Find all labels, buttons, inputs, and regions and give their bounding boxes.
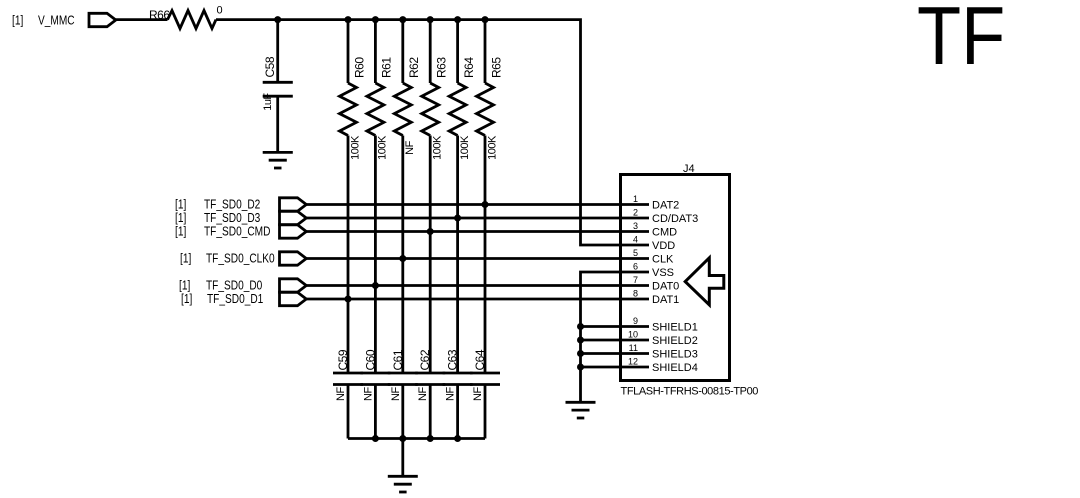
- pin 7 DAT0: [633, 275, 679, 292]
- wire SHIELD3 stub: [581, 352, 650, 355]
- junction SHIELD4: [577, 364, 584, 371]
- port TF_SD0_CLK0: [180, 251, 306, 265]
- svg-text:C62: C62: [418, 349, 432, 370]
- capacitor C64: [470, 349, 500, 438]
- svg-text:NF: NF: [445, 387, 457, 401]
- capacitor C61: [388, 349, 418, 438]
- svg-text:10: 10: [628, 330, 638, 340]
- junction R62 top: [399, 16, 406, 23]
- wire TF_SD0_D0 to pin 7: [306, 284, 649, 287]
- svg-text:2: 2: [633, 208, 638, 218]
- svg-text:CMD: CMD: [652, 226, 677, 238]
- svg-text:4: 4: [633, 235, 638, 245]
- resistor R66: [149, 5, 223, 29]
- svg-text:J4: J4: [683, 163, 695, 175]
- svg-text:TFLASH-TFRHS-00815-TP00: TFLASH-TFRHS-00815-TP00: [621, 386, 759, 398]
- svg-text:0: 0: [217, 5, 223, 17]
- wire SHIELD2 stub: [581, 339, 650, 342]
- svg-text:C64: C64: [473, 349, 487, 370]
- capacitor C59: [333, 349, 363, 438]
- svg-text:7: 7: [633, 275, 638, 285]
- wire V_MMC to R66: [116, 18, 168, 21]
- wire ground bus: [348, 437, 485, 440]
- svg-text:C61: C61: [391, 349, 405, 370]
- pin 2 CD/DAT3: [633, 208, 698, 225]
- svg-text:TF_SD0_D1: TF_SD0_D1: [207, 292, 263, 306]
- svg-text:[1]: [1]: [175, 197, 186, 211]
- resistor R64: [449, 20, 476, 373]
- junction bus C60: [372, 435, 379, 442]
- pin 1 DAT2: [633, 194, 679, 211]
- svg-text:DAT1: DAT1: [652, 294, 679, 306]
- port TF_SD0_CMD: [175, 224, 306, 238]
- port TF_SD0_D3: [175, 211, 306, 225]
- resistor R65: [477, 20, 504, 373]
- svg-text:R62: R62: [407, 57, 421, 78]
- svg-text:9: 9: [633, 316, 638, 326]
- svg-text:100K: 100K: [432, 135, 444, 160]
- svg-text:NF: NF: [472, 387, 484, 401]
- svg-text:VDD: VDD: [652, 240, 675, 252]
- svg-text:8: 8: [633, 289, 638, 299]
- svg-text:C63: C63: [446, 349, 460, 370]
- resistor R62: [394, 20, 421, 373]
- svg-text:CD/DAT3: CD/DAT3: [652, 213, 698, 225]
- svg-text:12: 12: [628, 357, 638, 367]
- port V_MMC: [12, 13, 116, 28]
- svg-text:100K: 100K: [486, 135, 498, 160]
- svg-text:5: 5: [633, 248, 638, 258]
- port TF_SD0_D2: [175, 197, 306, 211]
- junction SHIELD2: [577, 337, 584, 344]
- wire TF_SD0_CLK0 to pin 5: [306, 257, 649, 260]
- svg-text:11: 11: [629, 343, 638, 353]
- junction R65 top: [482, 16, 489, 23]
- wire SHIELD1 stub: [581, 325, 650, 328]
- svg-text:1uF: 1uF: [262, 93, 274, 111]
- card detect arrow: [685, 258, 724, 305]
- ground C58: [263, 152, 293, 168]
- svg-text:DAT2: DAT2: [652, 199, 679, 211]
- svg-text:TF_SD0_D2: TF_SD0_D2: [204, 197, 260, 211]
- wire V_MMC net to pin 4 VDD: [216, 20, 649, 245]
- pin 12 SHIELD4: [628, 357, 698, 374]
- junction R64 top: [454, 16, 461, 23]
- wire SHIELD4 stub: [581, 366, 650, 369]
- wire TF_SD0_D2 to pin 1: [306, 203, 649, 206]
- wire VSS pin 6 to ground: [581, 272, 650, 402]
- pin 3 CMD: [633, 221, 677, 238]
- svg-text:100K: 100K: [377, 135, 389, 160]
- port TF_SD0_D0: [179, 278, 306, 292]
- svg-text:TF_SD0_CMD: TF_SD0_CMD: [204, 224, 270, 238]
- capacitor C60: [360, 349, 390, 438]
- svg-text:R64: R64: [462, 57, 476, 78]
- svg-text:C59: C59: [336, 349, 350, 370]
- svg-text:[1]: [1]: [175, 211, 186, 225]
- wire bus to ground: [401, 439, 404, 477]
- pin 11 SHIELD3: [629, 343, 698, 360]
- svg-text:C58: C58: [263, 56, 277, 77]
- junction R61 top: [372, 16, 379, 23]
- pin 6 VSS: [633, 262, 674, 279]
- svg-text:SHIELD1: SHIELD1: [652, 321, 698, 333]
- capacitor C62: [415, 349, 445, 438]
- wire TF_SD0_CMD to pin 3: [306, 230, 649, 233]
- svg-text:DAT0: DAT0: [652, 280, 679, 292]
- port TF_SD0_D1: [181, 292, 306, 306]
- junction TF_SD0_D2 / R65: [482, 201, 489, 208]
- svg-text:100K: 100K: [459, 135, 471, 160]
- svg-text:CLK: CLK: [652, 253, 674, 265]
- svg-text:[1]: [1]: [179, 278, 190, 292]
- svg-text:100K: 100K: [349, 135, 361, 160]
- junction bus C62: [427, 435, 434, 442]
- svg-text:R65: R65: [489, 57, 503, 78]
- capacitor C63: [443, 349, 473, 438]
- svg-text:TF_SD0_CLK0: TF_SD0_CLK0: [206, 251, 275, 265]
- junction R60 top: [345, 16, 352, 23]
- svg-text:6: 6: [633, 262, 638, 272]
- pin 9 SHIELD1: [633, 316, 698, 333]
- svg-text:SHIELD4: SHIELD4: [652, 362, 698, 374]
- junction bus C61: [399, 435, 406, 442]
- svg-text:C60: C60: [363, 349, 377, 370]
- svg-text:3: 3: [633, 221, 638, 231]
- svg-text:SHIELD3: SHIELD3: [652, 348, 698, 360]
- svg-text:R66: R66: [149, 8, 170, 22]
- junction TF_SD0_D1 / R60: [345, 296, 352, 303]
- svg-text:VSS: VSS: [652, 267, 674, 279]
- junction R63 top: [427, 16, 434, 23]
- ground VSS: [566, 402, 596, 418]
- junction SHIELD3: [577, 350, 584, 357]
- resistor R61: [367, 20, 394, 373]
- svg-text:[1]: [1]: [181, 292, 192, 306]
- pin 10 SHIELD2: [628, 330, 698, 347]
- junction TF_SD0_D3 / R64: [454, 215, 461, 222]
- svg-text:R60: R60: [352, 57, 366, 78]
- svg-text:1: 1: [633, 194, 638, 204]
- resistor R60: [340, 20, 367, 373]
- svg-text:R63: R63: [435, 57, 449, 78]
- junction TF_SD0_CLK0 / R62: [399, 255, 406, 262]
- svg-text:TF_SD0_D3: TF_SD0_D3: [204, 211, 260, 225]
- pin 4 VDD: [633, 235, 675, 252]
- svg-text:TF: TF: [917, 0, 1005, 82]
- svg-text:NF: NF: [335, 387, 347, 401]
- junction C58 / top net: [274, 16, 281, 23]
- svg-text:NF: NF: [362, 387, 374, 401]
- svg-text:V_MMC: V_MMC: [38, 13, 75, 27]
- resistor R63: [422, 20, 449, 373]
- svg-text:TF_SD0_D0: TF_SD0_D0: [206, 278, 263, 292]
- junction TF_SD0_CMD / R63: [427, 228, 434, 235]
- svg-text:NF: NF: [390, 387, 402, 401]
- svg-text:R61: R61: [380, 57, 394, 78]
- svg-text:[1]: [1]: [12, 13, 23, 27]
- junction TF_SD0_D0 / R61: [372, 282, 379, 289]
- connector J4: [621, 163, 759, 398]
- ground bottom: [388, 476, 418, 492]
- junction bus C63: [454, 435, 461, 442]
- svg-text:NF: NF: [404, 140, 416, 154]
- capacitor C58: [262, 20, 293, 151]
- svg-text:SHIELD2: SHIELD2: [652, 335, 698, 347]
- svg-text:[1]: [1]: [175, 224, 186, 238]
- pin 5 CLK: [633, 248, 674, 265]
- wire TF_SD0_D3 to pin 2: [306, 217, 649, 220]
- svg-text:NF: NF: [417, 387, 429, 401]
- svg-text:[1]: [1]: [180, 251, 191, 265]
- junction SHIELD1: [577, 323, 584, 330]
- wire TF_SD0_D1 to pin 8: [306, 298, 649, 301]
- pin 8 DAT1: [633, 289, 679, 306]
